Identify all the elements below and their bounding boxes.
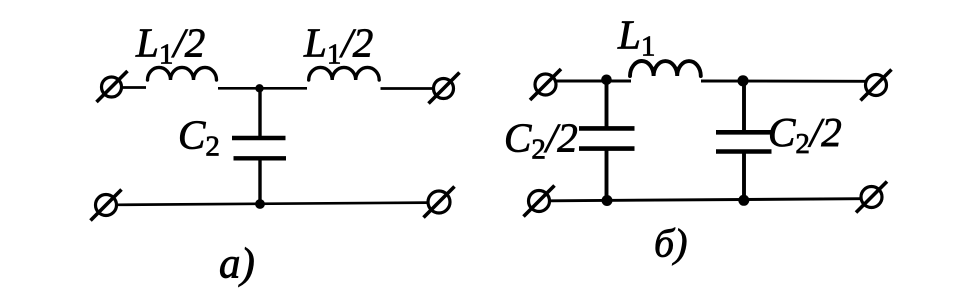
terminal output top-right (b): [861, 70, 892, 101]
svg-text:L1: L1: [617, 12, 655, 63]
svg-text:C2: C2: [178, 112, 220, 163]
svg-text:L1/2: L1/2: [303, 20, 373, 71]
capacitor C2/2 right bottom plate: [716, 149, 772, 154]
capacitor C2/2 right top plate: [716, 130, 772, 135]
node bottom-right (b) junction dot: [738, 195, 749, 206]
svg-text:C2/2: C2/2: [504, 115, 578, 166]
capacitor C2 bottom plate: [234, 156, 287, 160]
capacitor C2/2 left top plate: [579, 126, 635, 131]
wire between left inductor and node: [218, 87, 307, 90]
wire right inductor to output: [381, 87, 434, 90]
wire right capacitor bottom lead (b): [742, 152, 746, 201]
capacitor C2 top plate: [232, 136, 286, 140]
terminal bottom-left (a): [91, 190, 122, 221]
wire capacitor top lead (a): [258, 88, 261, 137]
inductor L1/2 right (a): [309, 67, 380, 80]
inductor L1/2 left (a): [148, 67, 217, 80]
wire capacitor bottom lead (a): [258, 158, 261, 204]
wire bottom rail (a): [117, 203, 428, 205]
node top (a) junction dot: [255, 84, 263, 92]
wire input to first node (b): [556, 80, 631, 83]
terminal bottom-right (b): [856, 182, 887, 213]
terminal output top-right (a): [429, 73, 460, 104]
wire inductor to second node and output (b): [701, 80, 867, 83]
node bottom-left (b) junction dot: [602, 195, 613, 206]
wire left capacitor top lead (b): [605, 80, 609, 127]
wire left capacitor bottom lead (b): [605, 149, 609, 201]
terminal bottom-left (b): [524, 186, 555, 217]
svg-text:а): а): [219, 241, 255, 288]
node top-left (b) junction dot: [601, 75, 612, 86]
inductor L1 (b): [630, 61, 701, 76]
svg-text:б): б): [654, 221, 687, 266]
terminal input top-left (a): [97, 71, 128, 102]
node top-right (b) junction dot: [737, 75, 748, 86]
wire input to L1/2 left: [122, 86, 146, 89]
terminal input top-left (b): [530, 69, 561, 100]
wire bottom rail (b): [550, 199, 862, 201]
node bottom (a) junction dot: [255, 199, 265, 209]
wire right capacitor top lead (b): [742, 81, 746, 131]
capacitor C2/2 left bottom plate: [579, 146, 635, 151]
svg-text:C2/2: C2/2: [768, 109, 842, 160]
svg-text:L1/2: L1/2: [135, 20, 205, 71]
terminal bottom-right (a): [424, 187, 455, 218]
